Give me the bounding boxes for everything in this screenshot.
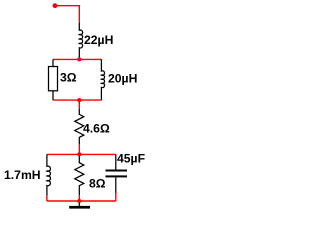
svg-text:20µH: 20µH — [108, 72, 137, 86]
svg-text:22µH: 22µH — [84, 33, 113, 47]
svg-text:4.6Ω: 4.6Ω — [83, 122, 110, 136]
svg-text:8Ω: 8Ω — [89, 176, 106, 190]
svg-text:45µF: 45µF — [117, 152, 145, 166]
svg-text:3Ω: 3Ω — [60, 71, 77, 85]
svg-text:1.7mH: 1.7mH — [4, 168, 41, 182]
